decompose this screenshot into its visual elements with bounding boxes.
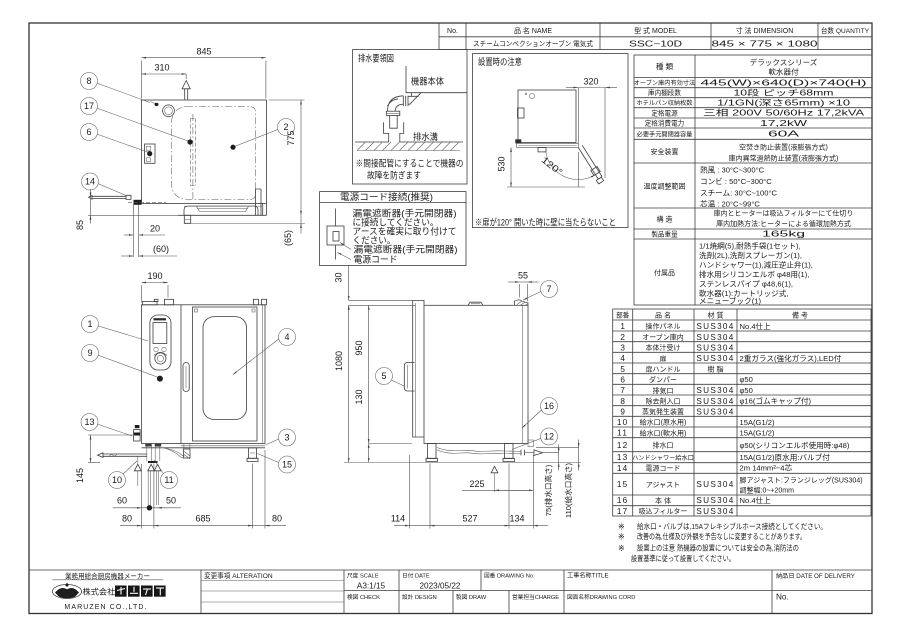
530 dim (510, 148, 512, 188)
svg-text:SUS304: SUS304 (696, 343, 734, 352)
svg-text:15A(G1/2): 15A(G1/2) (740, 429, 776, 438)
svg-text:445(W)×640(D)×740(H): 445(W)×640(D)×740(H) (701, 78, 868, 87)
svg-text:8: 8 (86, 76, 91, 86)
oven cavity dash-dot outline (172, 107, 256, 200)
svg-text:※: ※ (618, 533, 625, 542)
950 dim (368, 305, 370, 443)
balloon 1 (82, 316, 99, 333)
svg-text:50: 50 (166, 496, 176, 506)
horizontal pipe into elbow (408, 96, 419, 104)
svg-text:除去剤入口: 除去剤入口 (646, 397, 681, 406)
bottom dims 80/685/80 (141, 464, 143, 529)
rear fittings (528, 440, 534, 447)
svg-text:排水口: 排水口 (653, 441, 674, 450)
floor hatching (357, 142, 459, 151)
svg-text:営業担当CHARGE: 営業担当CHARGE (512, 593, 559, 601)
svg-text:メニューブック(1): メニューブック(1) (699, 296, 761, 306)
svg-text:1080: 1080 (334, 351, 344, 371)
svg-text:16: 16 (544, 401, 554, 411)
svg-text:75(排水口高さ): 75(排水口高さ) (543, 464, 553, 516)
svg-text:5: 5 (381, 371, 386, 381)
svg-text:SUS304: SUS304 (696, 322, 734, 331)
svg-text:SSC−10D: SSC−10D (629, 40, 682, 49)
svg-text:11: 11 (164, 475, 173, 485)
svg-text:庫内加熱方法:ヒーターによる循環加熱方式: 庫内加熱方法:ヒーターによる循環加熱方式 (716, 219, 851, 228)
drain piping guide box (353, 50, 468, 184)
svg-text:12: 12 (617, 441, 629, 450)
svg-text:給水口・バルブは,15Aフレキシブルホース接続としてください: 給水口・バルブは,15Aフレキシブルホース接続としてください。 (637, 521, 827, 531)
svg-text:7: 7 (620, 386, 625, 395)
svg-text:No.4仕上: No.4仕上 (740, 321, 772, 331)
svg-text:320: 320 (583, 77, 598, 87)
svg-text:脚アジャスト:フランジレッグ(SUS304): 脚アジャスト:フランジレッグ(SUS304) (740, 475, 863, 484)
balloon 2 (278, 119, 295, 136)
svg-text:13: 13 (617, 453, 629, 462)
svg-text:10: 10 (617, 418, 629, 427)
svg-text:80: 80 (122, 514, 132, 524)
svg-text:No.: No. (447, 28, 458, 35)
svg-text:11: 11 (617, 429, 628, 438)
svg-text:A3:1/15: A3:1/15 (357, 582, 386, 591)
svg-text:芯温 : 20°C~99°C: 芯温 : 20°C~99°C (700, 199, 760, 209)
svg-text:漏電遮断器(手元開閉器): 漏電遮断器(手元開閉器) (354, 244, 458, 255)
power cord plan (89, 196, 127, 200)
tail pipe (390, 115, 398, 128)
top caps (142, 302, 157, 305)
775 dim (300, 100, 302, 215)
balloon 6 (81, 124, 98, 141)
svg-text:寸 法 DIMENSION: 寸 法 DIMENSION (736, 26, 794, 35)
svg-text:SUS304: SUS304 (696, 480, 734, 489)
svg-text:527: 527 (462, 514, 477, 524)
balloon 12 (541, 428, 558, 445)
svg-text:業務用総合厨房機器メーカー: 業務用総合厨房機器メーカー (65, 571, 150, 580)
svg-text:9: 9 (620, 407, 625, 416)
balloon 9 (82, 345, 99, 362)
75 (drain height) dim (558, 445, 560, 453)
svg-text:図面名称DRAWING CORD: 図面名称DRAWING CORD (567, 593, 635, 601)
body outlet chamfer (410, 93, 421, 105)
svg-text:材 質: 材 質 (708, 311, 724, 320)
svg-text:工事名称TITLE: 工事名称TITLE (567, 572, 609, 580)
svg-text:10: 10 (112, 475, 122, 485)
svg-text:110(給水口高さ): 110(給水口高さ) (563, 462, 573, 518)
svg-text:775: 775 (286, 130, 296, 145)
svg-text:台数 QUANTITY: 台数 QUANTITY (821, 26, 870, 35)
plan body outline (142, 100, 267, 203)
svg-text:No.: No. (776, 593, 789, 602)
svg-text:品 名: 品 名 (655, 311, 671, 320)
front body outline (142, 305, 266, 444)
svg-text:2m 14mm²−4芯: 2m 14mm²−4芯 (740, 463, 793, 473)
svg-text:三相 200V 50/60Hz 17,2kVA: 三相 200V 50/60Hz 17,2kVA (703, 108, 865, 118)
floor and drain channel (355, 141, 463, 143)
hand shower valve item13 (135, 425, 140, 428)
maruzen logo cell (52, 571, 165, 611)
svg-text:必要手元開閉器容量: 必要手元開閉器容量 (637, 131, 693, 139)
svg-text:SUS304: SUS304 (696, 397, 734, 406)
225 dim (462, 489, 533, 491)
svg-text:検図 CHECK: 検図 CHECK (347, 593, 380, 601)
(60) dim (121, 255, 133, 257)
svg-text:設置時の注意: 設置時の注意 (478, 56, 522, 67)
svg-text:構 造: 構 造 (657, 215, 673, 224)
svg-text:改善の為,仕様及び外観を予告なしに変更することがあります。: 改善の為,仕様及び外観を予告なしに変更することがあります。 (637, 531, 806, 541)
balloon 14 (82, 173, 99, 190)
svg-text:設置基準に従って設置してください。: 設置基準に従って設置してください。 (631, 553, 735, 563)
hand shower pipe (103, 454, 147, 456)
svg-text:12: 12 (544, 432, 554, 442)
legs side (428, 444, 437, 459)
svg-text:付属品: 付属品 (654, 268, 675, 277)
door hinge (plan) (255, 189, 261, 215)
svg-text:扉ハンドル: 扉ハンドル (646, 365, 681, 374)
svg-text:φ50(シリコンエルボ使用時:φ48): φ50(シリコンエルボ使用時:φ48) (740, 440, 850, 450)
door panel (193, 307, 258, 441)
svg-text:オーブン庫内有効寸法: オーブン庫内有効寸法 (634, 79, 696, 87)
110 (supply height) dim (578, 440, 580, 448)
supply triangles (134, 464, 141, 471)
svg-text:310: 310 (154, 63, 169, 73)
name/model header table (439, 23, 872, 50)
svg-text:950: 950 (354, 340, 364, 355)
svg-text:60A: 60A (768, 130, 800, 139)
svg-text:空焚き防止装置(液膨張方式): 空焚き防止装置(液膨張方式) (739, 143, 828, 152)
svg-text:SUS304: SUS304 (696, 333, 734, 342)
svg-text:オーブン庫内: オーブン庫内 (642, 333, 684, 342)
svg-text:日付 DATE: 日付 DATE (402, 572, 430, 580)
svg-text:ステンレスパイプ φ48,6(1),: ステンレスパイプ φ48,6(1), (699, 280, 793, 289)
svg-text:225: 225 (469, 479, 484, 489)
svg-text:165kg: 165kg (762, 230, 806, 239)
svg-text:114: 114 (391, 514, 405, 524)
svg-text:6: 6 (620, 375, 625, 384)
connection box item6 (145, 144, 155, 163)
svg-text:3: 3 (284, 433, 289, 443)
130 dim (368, 444, 370, 463)
60 / 50 dims (113, 507, 181, 509)
svg-text:デラックスシリーズ: デラックスシリーズ (750, 57, 818, 67)
svg-text:17,2kW: 17,2kW (760, 119, 807, 128)
svg-text:電源コード接続(推奨): 電源コード接続(推奨) (340, 191, 433, 202)
logo mark (52, 585, 81, 599)
svg-text:品 名 NAME: 品 名 NAME (514, 26, 552, 35)
elbow body (388, 96, 404, 111)
balloon 16 (541, 398, 558, 415)
svg-text:2023/05/22: 2023/05/22 (420, 582, 461, 591)
svg-text:15: 15 (282, 460, 292, 470)
door handle (side) (404, 363, 414, 392)
svg-text:190: 190 (147, 271, 162, 281)
svg-text:製品重量: 製品重量 (651, 230, 678, 239)
svg-text:定格消費電力: 定格消費電力 (645, 119, 685, 128)
svg-text:洗剤(2L),洗剤スプレーガン(1),: 洗剤(2L),洗剤スプレーガン(1), (699, 250, 802, 260)
svg-text:8: 8 (620, 397, 625, 406)
damper duct dashed strip (190, 119, 195, 186)
drain pipe side (437, 448, 521, 454)
1080 dim (348, 305, 350, 462)
svg-text:故障を防ぎます: 故障を防ぎます (367, 170, 421, 181)
svg-text:845: 845 (196, 47, 211, 57)
machine body outline (406, 66, 467, 93)
svg-text:電源コード: 電源コード (354, 255, 398, 265)
balloon 15 (279, 456, 296, 473)
door glass window (203, 317, 247, 420)
svg-text:2重ガラス(強化ガラス),LED付: 2重ガラス(強化ガラス),LED付 (740, 353, 842, 363)
balloon 7 (541, 281, 558, 298)
svg-text:685: 685 (195, 514, 210, 524)
svg-text:ハンドシャワー(1),減圧逆止弁(1),: ハンドシャワー(1),減圧逆止弁(1), (699, 260, 813, 270)
drain outlet under base (184, 449, 191, 458)
breaker symbol (335, 209, 337, 227)
svg-text:調整幅:0~+20mm: 調整幅:0~+20mm (740, 485, 795, 494)
svg-text:60: 60 (117, 496, 127, 506)
svg-text:4: 4 (620, 354, 625, 363)
svg-text:17: 17 (84, 101, 94, 111)
svg-text:6: 6 (86, 127, 91, 137)
svg-text:SUS304: SUS304 (696, 354, 734, 363)
svg-text:※扉が120° 開いた時に壁に当たらないこと: ※扉が120° 開いた時に壁に当たらないこと (475, 217, 616, 228)
svg-text:製図 DRAW: 製図 DRAW (456, 593, 487, 601)
svg-text:1/1GN(深さ65mm) ×10: 1/1GN(深さ65mm) ×10 (717, 98, 851, 107)
svg-text:9: 9 (87, 348, 92, 358)
drain position triangle (491, 466, 498, 473)
title block (29, 570, 872, 614)
svg-text:80: 80 (272, 514, 282, 524)
svg-text:ホテルパン収納枚数: ホテルパン収納枚数 (637, 99, 694, 107)
svg-text:※: ※ (618, 544, 625, 553)
footnotes (618, 521, 827, 563)
svg-text:ダンパー: ダンパー (649, 375, 677, 384)
svg-text:2: 2 (283, 122, 288, 132)
closed door bar (517, 143, 579, 147)
svg-text:給水口(軟水用): 給水口(軟水用) (640, 428, 687, 437)
svg-text:備 考: 備 考 (792, 311, 808, 320)
svg-text:排水溝: 排水溝 (413, 131, 438, 142)
svg-text:熱風 : 30°C~300°C: 熱風 : 30°C~300°C (700, 165, 765, 175)
svg-text:20: 20 (150, 224, 160, 234)
svg-text:図番 DRAWING No.: 図番 DRAWING No. (484, 573, 535, 580)
svg-text:85: 85 (75, 220, 85, 230)
svg-text:30: 30 (334, 272, 344, 282)
svg-text:スチーム: 30°C~100°C: スチーム: 30°C~100°C (700, 189, 777, 198)
balloon 13 (81, 414, 98, 431)
svg-text:SUS304: SUS304 (696, 496, 734, 505)
floor line (344, 461, 581, 463)
svg-text:尺度 SCALE: 尺度 SCALE (347, 572, 379, 580)
svg-text:本 体: 本 体 (655, 496, 671, 505)
door panel (side) (413, 300, 424, 437)
drain funnel cup (384, 122, 404, 142)
damper vent arrow on top (182, 81, 190, 89)
svg-text:1: 1 (620, 322, 625, 331)
svg-text:7: 7 (546, 284, 551, 294)
145 dim (90, 435, 92, 462)
svg-text:※: ※ (618, 523, 625, 532)
svg-text:15: 15 (617, 480, 629, 489)
svg-text:納品日 DATE OF DELIVERY: 納品日 DATE OF DELIVERY (776, 572, 855, 580)
svg-text:(65): (65) (283, 230, 293, 246)
svg-text:134: 134 (509, 514, 524, 524)
svg-text:蒸気発生装置: 蒸気発生装置 (642, 407, 684, 416)
svg-text:13: 13 (84, 417, 94, 427)
svg-text:アジャスト: アジャスト (646, 481, 680, 489)
svg-text:530: 530 (497, 156, 507, 171)
190 dim (142, 282, 169, 284)
svg-text:2: 2 (620, 333, 625, 342)
svg-text:10段 ピッチ68mm: 10段 ピッチ68mm (734, 87, 834, 97)
svg-text:排水要領図: 排水要領図 (358, 53, 394, 64)
svg-text:14: 14 (617, 464, 629, 473)
svg-text:φ16(ゴムキャップ付): φ16(ゴムキャップ付) (740, 396, 812, 406)
side body outline (424, 305, 528, 443)
svg-text:排気口: 排気口 (653, 386, 674, 395)
55 dim (508, 281, 519, 283)
120 deg arc (546, 150, 595, 179)
power cord connection box (320, 191, 466, 266)
svg-text:SUS304: SUS304 (696, 407, 734, 416)
svg-text:845 × 775 × 1080: 845 × 775 × 1080 (712, 40, 819, 49)
svg-text:15A(G1/2)原水用:バルブ付: 15A(G1/2)原水用:バルブ付 (740, 452, 831, 462)
balloon 4 (279, 329, 296, 346)
svg-text:機器本体: 機器本体 (411, 76, 444, 87)
door sill and handle (plan) (184, 206, 258, 215)
svg-text:5: 5 (620, 365, 625, 374)
svg-text:設計 DESIGN: 設計 DESIGN (402, 593, 437, 601)
svg-text:操作パネル: 操作パネル (646, 322, 681, 331)
plan body square (518, 90, 576, 143)
door handle front (183, 363, 189, 392)
svg-text:55: 55 (518, 271, 528, 281)
open door at 120 deg (578, 145, 602, 179)
svg-text:SUS304: SUS304 (696, 507, 734, 516)
svg-text:φ50: φ50 (740, 386, 753, 395)
svg-text:1: 1 (87, 319, 92, 329)
elbow socket rings (403, 96, 408, 106)
damper lever on top (468, 302, 483, 305)
85 dim (90, 189, 92, 197)
svg-text:スチームコンベクションオーブン 電気式: スチームコンベクションオーブン 電気式 (473, 39, 593, 48)
310 dim (142, 73, 187, 75)
svg-text:温度調整範囲: 温度調整範囲 (644, 182, 686, 191)
bottom dims 114/527/134 (408, 455, 410, 529)
svg-text:本体汁受け: 本体汁受け (646, 343, 681, 352)
svg-text:樹 脂: 樹 脂 (708, 365, 724, 374)
(65) dim (300, 215, 302, 223)
specification table (634, 55, 872, 306)
svg-text:排水用シリコンエルボ φ48用(1),: 排水用シリコンエルボ φ48用(1), (699, 269, 809, 279)
svg-text:4: 4 (284, 332, 289, 342)
20 dim (132, 205, 134, 258)
svg-text:コンビ : 50°C~300°C: コンビ : 50°C~300°C (700, 177, 772, 186)
water pipes under control section (147, 447, 160, 462)
parts list table (613, 309, 871, 516)
svg-text:軟水器付: 軟水器付 (768, 67, 799, 77)
svg-text:130: 130 (354, 389, 364, 404)
svg-text:型 式 MODEL: 型 式 MODEL (634, 26, 677, 35)
svg-text:部番: 部番 (616, 311, 630, 320)
svg-text:庫内異常過熱防止装置(液膨張方式): 庫内異常過熱防止装置(液膨張方式) (729, 154, 839, 163)
svg-text:15A(G1/2): 15A(G1/2) (740, 418, 776, 427)
balloon 8 (81, 73, 98, 90)
svg-text:17: 17 (617, 507, 629, 516)
elbow lower coupling (386, 111, 400, 115)
svg-text:安全装置: 安全装置 (651, 147, 679, 156)
svg-text:No.4仕上: No.4仕上 (740, 495, 772, 505)
exhaust vent item7 on top (515, 300, 529, 305)
steam generator mark item9 (157, 376, 163, 382)
svg-text:電源コード: 電源コード (646, 464, 681, 473)
svg-text:種 類: 種 類 (656, 61, 674, 71)
svg-text:SUS304: SUS304 (696, 386, 734, 395)
svg-text:1/1焼網(5),耐熱手袋(1セット),: 1/1焼網(5),耐熱手袋(1セット), (699, 241, 801, 251)
svg-text:16: 16 (617, 496, 629, 505)
svg-text:(60): (60) (153, 244, 169, 254)
svg-text:株式会社: 株式会社 (83, 587, 116, 597)
leader dots (187, 139, 192, 144)
legs (249, 448, 257, 459)
balloon 10 (109, 472, 126, 489)
svg-text:給水口(原水用): 給水口(原水用) (640, 418, 687, 427)
exhaust circle item7 (163, 105, 175, 117)
svg-text:設置上の注意 熱機器の設置については安全の為,消防法の: 設置上の注意 熱機器の設置については安全の為,消防法の (637, 543, 799, 553)
svg-text:吸込フィルター: 吸込フィルター (639, 507, 688, 516)
svg-text:3: 3 (620, 343, 625, 352)
svg-text:庫内棚段数: 庫内棚段数 (648, 88, 681, 97)
installation caution box (473, 54, 629, 228)
svg-text:定格電源: 定格電源 (651, 108, 678, 117)
svg-text:φ50: φ50 (740, 375, 753, 384)
balloon 17 (81, 98, 98, 115)
chemical inlet item8 (155, 103, 159, 106)
balloon 5 (376, 368, 393, 385)
845 dim (142, 57, 266, 59)
control panel (150, 315, 171, 370)
balloon 3 (279, 429, 296, 446)
svg-text:庫内とヒーターは吸込フィルターにて仕切り: 庫内とヒーターは吸込フィルターにて仕切り (714, 209, 854, 218)
svg-text:14: 14 (85, 177, 95, 187)
svg-text:MARUZEN CO.,LTD.: MARUZEN CO.,LTD. (64, 604, 147, 611)
svg-text:扉: 扉 (660, 354, 667, 363)
svg-text:145: 145 (75, 468, 85, 483)
30 dim (348, 266, 350, 300)
svg-text:変更事項 ALTERATION: 変更事項 ALTERATION (204, 571, 273, 580)
balloon 11 (161, 472, 178, 489)
base band (142, 447, 266, 449)
svg-text:※間接配管にすることで機器の: ※間接配管にすることで機器の (356, 158, 464, 169)
svg-text:ハンドシャワー給水口: ハンドシャワー給水口 (632, 454, 694, 462)
